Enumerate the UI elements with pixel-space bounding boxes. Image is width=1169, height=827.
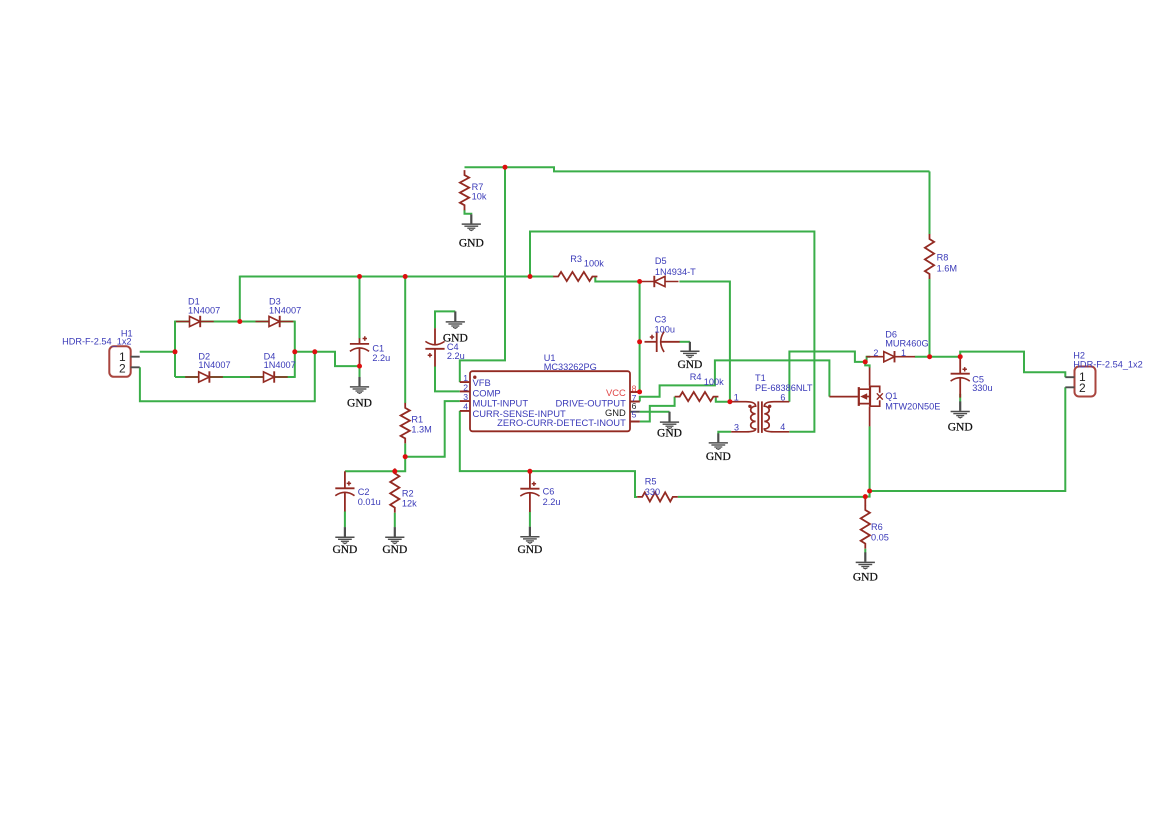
svg-text:GND: GND bbox=[347, 398, 372, 410]
junction H1 pin1 / bridge bbox=[173, 349, 178, 354]
svg-text:R1: R1 bbox=[411, 414, 423, 424]
wire C5 bottom to ground bbox=[959, 394, 961, 402]
svg-text:1N4007: 1N4007 bbox=[198, 360, 230, 370]
wire vcc top rail bbox=[465, 167, 930, 171]
svg-text:2.2u: 2.2u bbox=[543, 497, 561, 507]
svg-text:Q1: Q1 bbox=[885, 391, 897, 401]
transformer T1 polarity dot right bbox=[768, 405, 771, 408]
resistor R6 top lead bbox=[864, 497, 866, 506]
svg-text:C6: C6 bbox=[543, 486, 555, 496]
wire rectified bus horizontal bbox=[240, 276, 554, 278]
svg-text:8: 8 bbox=[632, 383, 637, 393]
svg-text:1N4007: 1N4007 bbox=[188, 305, 220, 315]
svg-text:GND: GND bbox=[443, 332, 468, 344]
wire C4 bottom to pin2 bbox=[435, 366, 460, 391]
wire C6 bottom to ground bbox=[529, 512, 531, 527]
svg-text:1: 1 bbox=[901, 348, 906, 358]
svg-text:4: 4 bbox=[463, 401, 468, 411]
resistor R8 1.6M bbox=[925, 234, 934, 279]
junction U1 pin8 vcc bbox=[637, 389, 642, 394]
wire Q1 drain elbow bbox=[865, 362, 869, 368]
ground at C2 bbox=[335, 527, 354, 544]
wire bridge top row bbox=[175, 321, 295, 323]
resistor R6 0.05 bbox=[861, 505, 870, 549]
svg-text:3: 3 bbox=[734, 422, 739, 432]
svg-text:MTW20N50E: MTW20N50E bbox=[885, 401, 940, 411]
ground at R7 bbox=[462, 214, 481, 230]
wire bridge right vertical bbox=[294, 321, 296, 378]
resistor R5 330 bbox=[637, 492, 678, 501]
ground at C4 bbox=[446, 311, 465, 328]
svg-text:100u: 100u bbox=[655, 324, 675, 334]
svg-text:0.01u: 0.01u bbox=[358, 497, 381, 507]
diode D3 1N4007 bbox=[256, 316, 294, 327]
wire C2 bottom to ground bbox=[344, 511, 346, 527]
wire R3 step to D5 node bbox=[595, 277, 641, 282]
wire R6 bottom to ground bbox=[864, 549, 866, 553]
svg-text:R5: R5 bbox=[645, 476, 657, 486]
junction R1 bottom node bbox=[403, 454, 408, 459]
junction R8 bottom / D6 cathode bbox=[927, 354, 932, 359]
diode D6 MUR460G bbox=[866, 351, 915, 362]
junction T1 pin1 / R4 / D5 bbox=[727, 399, 732, 404]
wire output to H2 pin1 bbox=[960, 352, 1065, 378]
svg-text:HDR-F-2.54_1x2: HDR-F-2.54_1x2 bbox=[1073, 359, 1142, 369]
wire sense node step to R6 bbox=[865, 491, 869, 497]
resistor R1 1.3M bbox=[401, 403, 410, 444]
wire pin5 staircase to R4 bbox=[640, 397, 675, 422]
resistor R4 100k bbox=[675, 392, 719, 401]
diode D4 1N4007 bbox=[250, 371, 288, 382]
diode D5 1N4934-T bbox=[641, 276, 679, 287]
capacitor C3 100u bbox=[645, 332, 680, 352]
svg-text:C3: C3 bbox=[655, 314, 667, 324]
connector H1 HDR-F-2.54_1x2 bbox=[109, 346, 130, 377]
connector H1 pin stubs bbox=[131, 357, 140, 368]
wire R1 bottom to node bbox=[404, 443, 406, 456]
wire node to D6 anode step bbox=[865, 357, 870, 362]
svg-text:330u: 330u bbox=[972, 383, 992, 393]
junction D5 cathode / vcc bbox=[637, 279, 642, 284]
transformer T1 right winding bbox=[764, 402, 789, 432]
wire R8 top feed bbox=[929, 171, 931, 234]
svg-text:GND: GND bbox=[382, 544, 407, 556]
ground at R2 bbox=[385, 527, 404, 544]
svg-text:R3: R3 bbox=[570, 254, 582, 264]
wire vcc riser x505 to pin1 bbox=[460, 167, 505, 382]
wire D5 to T1 pin1 drop bbox=[679, 282, 730, 402]
wire R2 bottom to ground bbox=[394, 513, 396, 528]
junction bridge top center bbox=[237, 319, 242, 324]
connector H2 HDR-F-2.54_1x2 bbox=[1075, 367, 1096, 397]
svg-text:GND: GND bbox=[706, 451, 731, 463]
junction C3 tap bbox=[637, 339, 642, 344]
svg-text:T1: T1 bbox=[755, 373, 766, 383]
ground at C6 bbox=[520, 527, 539, 544]
svg-text:GND: GND bbox=[948, 421, 973, 433]
U1 left pin stubs bbox=[460, 382, 470, 411]
svg-text:R6: R6 bbox=[871, 522, 883, 532]
ground at U1 pin6 bbox=[660, 412, 679, 429]
svg-text:2: 2 bbox=[463, 382, 468, 392]
wire R8 bottom to D6 node bbox=[929, 279, 931, 357]
svg-text:100k: 100k bbox=[704, 377, 724, 387]
svg-text:GND: GND bbox=[517, 544, 542, 556]
svg-text:GND: GND bbox=[459, 237, 484, 249]
svg-text:1N4934-T: 1N4934-T bbox=[655, 267, 696, 277]
svg-text:0.05: 0.05 bbox=[871, 533, 889, 543]
wire R7 bottom elbow bbox=[465, 210, 472, 215]
svg-text:1.3M: 1.3M bbox=[411, 424, 431, 434]
wire R4 right to T1 pin1 node bbox=[716, 397, 730, 402]
junction bus aux riser bbox=[528, 274, 533, 279]
wire T1 pin3 to ground elbow bbox=[718, 432, 731, 434]
svg-text:1: 1 bbox=[734, 393, 739, 403]
wire pin8 stub join bbox=[630, 391, 640, 393]
svg-text:12k: 12k bbox=[402, 499, 417, 509]
U1 right pin stubs bbox=[630, 392, 640, 422]
capacitor C4 2.2u bbox=[425, 328, 444, 366]
junction Q1 drain / D6 / T1 pin6 bbox=[863, 359, 868, 364]
wire H1 pin1 to bridge left node bbox=[140, 351, 175, 353]
wire C3 right to ground bbox=[679, 341, 690, 343]
diode D1 1N4007 bbox=[176, 316, 214, 327]
junction R5 / R6 node bbox=[863, 494, 868, 499]
junction Q1 source node bbox=[867, 489, 872, 494]
svg-text:HDR-F-2.54_1x2: HDR-F-2.54_1x2 bbox=[62, 336, 131, 346]
connector H2 pin stubs bbox=[1065, 377, 1074, 387]
svg-text:R8: R8 bbox=[937, 252, 949, 262]
svg-text:R7: R7 bbox=[472, 182, 484, 192]
svg-text:C2: C2 bbox=[358, 487, 370, 497]
svg-text:GND: GND bbox=[332, 544, 357, 556]
capacitor C2 0.01u bbox=[335, 471, 354, 511]
svg-text:GND: GND bbox=[677, 359, 702, 371]
svg-text:ZERO-CURR-DETECT-INOUT: ZERO-CURR-DETECT-INOUT bbox=[497, 417, 626, 428]
junction bus R1 bbox=[403, 274, 408, 279]
svg-text:1.6M: 1.6M bbox=[937, 263, 957, 273]
resistor R3 100k bbox=[553, 272, 597, 281]
resistor R7 10k bbox=[460, 170, 469, 210]
svg-text:2: 2 bbox=[873, 348, 878, 358]
wire sense node to H2 pin2 bbox=[870, 387, 1066, 491]
wire bus to aux rail riser bbox=[530, 232, 814, 432]
wire R1 top feed bbox=[404, 277, 406, 404]
wire bridge left vertical bbox=[174, 321, 176, 377]
svg-text:GND: GND bbox=[657, 428, 682, 440]
junction C1 bottom bbox=[357, 364, 362, 369]
svg-text:MUR460G: MUR460G bbox=[885, 339, 928, 349]
transformer T1 polarity dot left bbox=[748, 405, 751, 408]
junction bus C1 top bbox=[357, 274, 362, 279]
ground at R6 bbox=[856, 552, 875, 569]
svg-text:GND: GND bbox=[853, 571, 878, 583]
diode D2 1N4007 bbox=[185, 371, 223, 382]
junction C5 top bbox=[958, 354, 963, 359]
capacitor C1 2.2u bbox=[350, 336, 369, 366]
svg-text:5: 5 bbox=[632, 409, 637, 419]
wire T1 pin6 riser to Q1 drain node bbox=[789, 352, 865, 402]
svg-text:6: 6 bbox=[780, 392, 785, 402]
wire D6 cathode to output node bbox=[915, 356, 961, 358]
svg-text:2: 2 bbox=[119, 361, 126, 375]
transformer T1 core bars bbox=[758, 401, 762, 433]
svg-text:1N4007: 1N4007 bbox=[269, 305, 301, 315]
svg-text:D5: D5 bbox=[655, 256, 667, 266]
transformer T1 PE-68386NLT left winding bbox=[731, 402, 755, 432]
wire bridge output to C1 node bbox=[295, 352, 360, 366]
svg-text:330: 330 bbox=[645, 487, 660, 497]
U1 pin1 marker dot bbox=[473, 376, 476, 379]
svg-text:R4: R4 bbox=[690, 372, 702, 382]
junction R2 top node bbox=[392, 469, 397, 474]
svg-text:2.2u: 2.2u bbox=[372, 353, 390, 363]
wire bridge bottom row bbox=[175, 376, 295, 378]
svg-text:2: 2 bbox=[1079, 381, 1086, 395]
svg-text:1N4007: 1N4007 bbox=[264, 360, 296, 370]
wire pin4 current-sense run bbox=[460, 411, 637, 497]
resistor R2 12k bbox=[390, 468, 399, 512]
wire bridge top center riser bbox=[239, 276, 241, 322]
wire C4 top to ground elbow bbox=[435, 311, 455, 328]
wire node R1 down to R2/C2 row bbox=[345, 457, 405, 472]
svg-text:10k: 10k bbox=[472, 192, 487, 202]
ground at C3 bbox=[680, 342, 699, 358]
svg-text:2.2u: 2.2u bbox=[447, 351, 465, 361]
wire C1 top feed bbox=[359, 277, 361, 339]
svg-text:MC33262PG: MC33262PG bbox=[544, 362, 597, 372]
svg-text:R2: R2 bbox=[402, 488, 414, 498]
capacitor C5 330u bbox=[951, 357, 970, 398]
junction H1 pin2 return tap bbox=[312, 349, 317, 354]
U1 pin6 gray stub bbox=[630, 411, 640, 413]
capacitor C6 2.2u bbox=[520, 471, 539, 512]
op-amp U1 MC33262PG body bbox=[470, 371, 630, 431]
wire pin6 to ground bbox=[640, 411, 670, 413]
junction C6 tap bbox=[527, 469, 532, 474]
junction vcc top rail bbox=[503, 165, 508, 170]
wire H1 pin2 bottom return loop bbox=[140, 352, 315, 402]
wire vcc node vertical D5-C3-pin8 bbox=[639, 282, 641, 392]
wire C1 bottom to ground stem bbox=[359, 366, 361, 377]
wire R5 to R6 node bbox=[678, 496, 866, 498]
ground at C5 bbox=[951, 401, 970, 418]
svg-text:4: 4 bbox=[780, 422, 785, 432]
ground at T1 pin3 bbox=[709, 433, 728, 449]
junction bridge right tap bbox=[292, 349, 297, 354]
transistor Q1 MTW20N50E bbox=[829, 368, 882, 427]
ground at C1 bbox=[350, 377, 369, 393]
wire Q1 source down to sense node bbox=[869, 426, 871, 491]
wire pin7 drive staircase to Q1 gate bbox=[640, 360, 830, 401]
wire node R1 to pin3 riser bbox=[405, 401, 460, 457]
svg-text:100k: 100k bbox=[584, 259, 604, 269]
